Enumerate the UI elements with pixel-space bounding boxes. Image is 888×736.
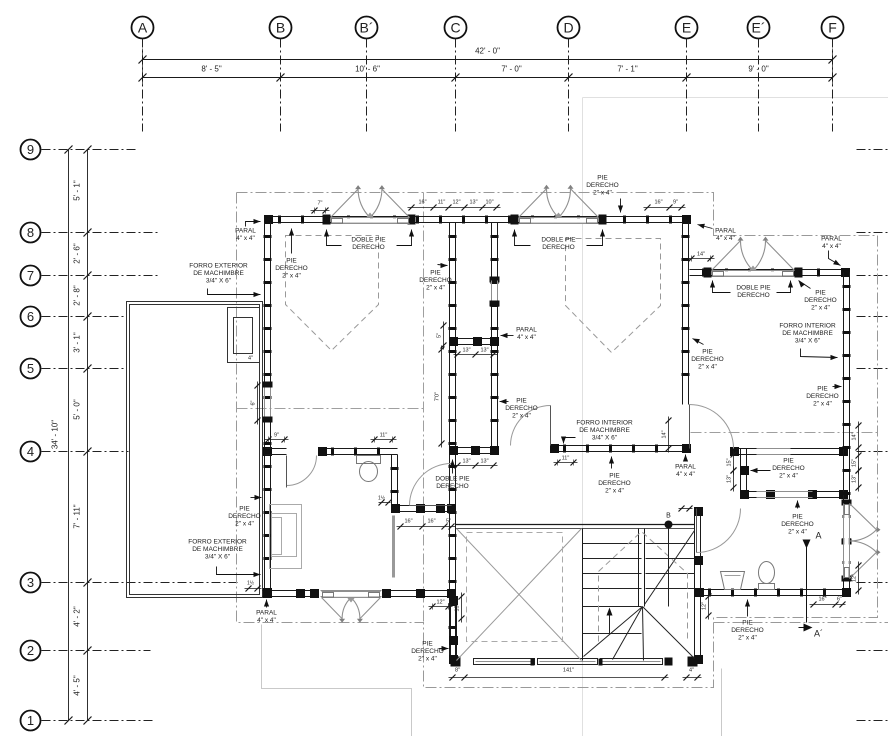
grid line 7 horizontal dash-dot xyxy=(42,275,159,277)
section marker A xyxy=(806,544,808,623)
grid line 8 horizontal dash-dot xyxy=(42,232,159,234)
E wall upper (x=682) xyxy=(682,223,684,405)
grid line 6 right edge dash-dot xyxy=(857,316,888,318)
window band right wing wall xyxy=(757,448,791,450)
corner post B top-left xyxy=(264,215,273,224)
grid bubble 8 xyxy=(21,223,41,243)
grid bubble F xyxy=(822,17,844,39)
grid line 1 right edge dash-dot xyxy=(857,720,888,722)
dims right wall right side xyxy=(858,422,860,452)
svg-text:2' - 8": 2' - 8" xyxy=(73,285,82,306)
svg-text:6: 6 xyxy=(27,309,34,324)
svg-text:3/4" X 6": 3/4" X 6" xyxy=(795,338,821,345)
small bathroom bottom wall xyxy=(392,505,456,507)
svg-text:DERECHO: DERECHO xyxy=(781,521,814,528)
svg-text:2" x 4": 2" x 4" xyxy=(593,190,612,197)
dim 5 closet vertical xyxy=(443,322,445,350)
left segment dimension line xyxy=(87,150,89,721)
grid line C vertical dash-dot xyxy=(455,39,457,132)
stair winder fan xyxy=(584,607,643,657)
ceiling dashed pentagon room D xyxy=(566,239,661,353)
svg-text:DERECHO: DERECHO xyxy=(804,297,837,304)
faint ground line xyxy=(262,625,412,736)
svg-text:2" x 4": 2" x 4" xyxy=(282,273,301,280)
grid line F vertical dash-dot xyxy=(832,39,834,132)
grid line 9 right edge dash-dot xyxy=(857,149,888,151)
svg-text:5": 5" xyxy=(446,519,451,525)
svg-text:DERECHO: DERECHO xyxy=(228,513,261,520)
terrace left wall xyxy=(450,597,452,661)
svg-text:DE MACHIMBRE: DE MACHIMBRE xyxy=(193,270,244,277)
stair X terrace gray diagonals xyxy=(457,529,582,661)
small bathroom right wall xyxy=(391,455,393,506)
carport / deck rectangle xyxy=(127,302,263,598)
svg-text:8' - 5": 8' - 5" xyxy=(201,65,222,74)
grid line A vertical dash-dot xyxy=(142,39,144,132)
sink right bathroom xyxy=(721,572,745,590)
svg-text:14": 14" xyxy=(662,430,668,438)
svg-text:4" x 4": 4" x 4" xyxy=(257,617,276,624)
svg-text:PIE: PIE xyxy=(783,458,794,465)
svg-text:1½: 1½ xyxy=(247,580,255,587)
svg-text:16": 16" xyxy=(427,519,435,525)
window left wall xyxy=(263,382,273,388)
dim 13 vertical bottom left wing xyxy=(461,593,463,623)
svg-text:DERECHO: DERECHO xyxy=(505,405,538,412)
double door swing bottom xyxy=(322,598,352,619)
dims 16,16,5 small bathroom xyxy=(397,526,456,528)
grid bubble 1 xyxy=(21,711,41,731)
dim 11 bathroom xyxy=(371,439,397,441)
grid line 4 right edge dash-dot xyxy=(857,451,888,453)
svg-text:FORRO EXTERIOR: FORRO EXTERIOR xyxy=(189,263,248,270)
svg-text:2" x 4": 2" x 4" xyxy=(418,656,437,663)
svg-text:11": 11" xyxy=(438,200,446,206)
E wall lower stub xyxy=(682,449,684,453)
grid bubble B xyxy=(270,17,292,39)
grid bubble B´ xyxy=(356,17,378,39)
dashed eave line right wing xyxy=(691,432,878,434)
svg-text:10": 10" xyxy=(485,200,493,206)
grid line 5 horizontal dash-dot xyxy=(42,368,127,370)
dashed eave line left wing xyxy=(237,408,424,410)
svg-text:12": 12" xyxy=(702,602,708,610)
faint sheet border top-right xyxy=(582,98,584,736)
window right wing top xyxy=(704,268,712,278)
door arc room D bottom xyxy=(511,406,551,446)
grid line E vertical dash-dot xyxy=(686,39,688,132)
tiny dim small bath xyxy=(379,502,391,504)
svg-text:PIE: PIE xyxy=(742,620,753,627)
svg-text:141": 141" xyxy=(563,668,574,674)
svg-text:4" x 4": 4" x 4" xyxy=(716,235,735,242)
dim 12 bottom left wing xyxy=(429,606,453,608)
svg-text:2" x 4": 2" x 4" xyxy=(811,305,830,312)
svg-text:2" x 4": 2" x 4" xyxy=(235,521,254,528)
svg-text:PIE: PIE xyxy=(430,270,441,277)
svg-text:11": 11" xyxy=(562,456,570,462)
dim 7 inch top wall xyxy=(311,210,330,212)
toilet right bathroom xyxy=(759,562,775,584)
svg-text:DERECHO: DERECHO xyxy=(731,627,764,634)
svg-text:DERECHO: DERECHO xyxy=(275,265,308,272)
svg-text:3/4" X 6": 3/4" X 6" xyxy=(206,278,232,285)
svg-text:PARAL: PARAL xyxy=(675,464,696,471)
grid bubble D xyxy=(558,17,580,39)
svg-text:13": 13" xyxy=(469,200,477,206)
svg-text:7": 7" xyxy=(317,201,322,207)
stair up arrow xyxy=(609,611,611,634)
svg-text:9": 9" xyxy=(274,433,279,439)
svg-text:4": 4" xyxy=(689,668,694,674)
dim 12 right wall lower xyxy=(858,562,860,595)
dims 13,13 closet xyxy=(454,354,498,356)
section marker A' xyxy=(804,624,813,632)
grid bubble E xyxy=(676,17,698,39)
grid bubble 5 xyxy=(21,359,41,379)
svg-text:3: 3 xyxy=(27,575,34,590)
svg-text:2" x 4": 2" x 4" xyxy=(738,635,757,642)
svg-text:E´: E´ xyxy=(752,20,766,36)
terrace bottom dim 8,141,4 xyxy=(449,677,669,679)
right wing wall y=448 xyxy=(731,448,847,450)
grid line 4 horizontal dash-dot xyxy=(42,451,129,453)
svg-text:16": 16" xyxy=(654,200,662,206)
svg-text:PIE: PIE xyxy=(286,258,297,265)
dims 15,13 right wing left xyxy=(733,451,735,475)
svg-text:5' - 1": 5' - 1" xyxy=(73,180,82,201)
svg-text:34' - 10": 34' - 10" xyxy=(51,420,60,449)
grid bubble 9 xyxy=(21,140,41,160)
svg-text:2" x 4": 2" x 4" xyxy=(813,401,832,408)
grid bubble 6 xyxy=(21,307,41,327)
dim 14 E wall vertical xyxy=(668,417,670,453)
svg-text:4" x 4": 4" x 4" xyxy=(822,243,841,250)
grid line 6 horizontal dash-dot xyxy=(42,316,127,318)
svg-text:3' - 1": 3' - 1" xyxy=(73,332,82,353)
window top wall 2 xyxy=(511,215,519,225)
stair diagonal upper right xyxy=(645,531,695,605)
svg-text:F: F xyxy=(828,20,837,36)
svg-text:B´: B´ xyxy=(360,20,374,36)
grid bubble 4 xyxy=(21,442,41,462)
svg-text:DERECHO: DERECHO xyxy=(352,244,385,251)
svg-text:12": 12" xyxy=(436,600,444,606)
svg-text:2" x 4": 2" x 4" xyxy=(788,529,807,536)
svg-text:2" x 4": 2" x 4" xyxy=(426,285,445,292)
svg-text:16": 16" xyxy=(418,200,426,206)
svg-text:PARAL: PARAL xyxy=(256,610,277,617)
svg-text:12": 12" xyxy=(452,200,460,206)
svg-text:DERECHO: DERECHO xyxy=(586,182,619,189)
dim 14 right wing top xyxy=(688,258,715,260)
svg-text:DERECHO: DERECHO xyxy=(542,244,575,251)
svg-text:DOBLE PIE: DOBLE PIE xyxy=(351,237,386,244)
door arc bathroom small xyxy=(287,456,317,486)
right wing wall y=491 xyxy=(741,491,847,493)
chimney box xyxy=(228,308,260,363)
svg-text:11": 11" xyxy=(380,433,388,439)
svg-text:DERECHO: DERECHO xyxy=(436,483,469,490)
svg-text:6": 6" xyxy=(837,597,842,603)
dims 16,9 top wall right xyxy=(644,207,686,209)
grid line E´ vertical dash-dot xyxy=(758,39,760,132)
grid line B vertical dash-dot xyxy=(280,39,282,132)
grid bubble E´ xyxy=(748,17,770,39)
svg-text:7' - 1": 7' - 1" xyxy=(617,65,638,74)
svg-text:DERECHO: DERECHO xyxy=(737,292,770,299)
svg-text:DOBLE PIE: DOBLE PIE xyxy=(736,285,771,292)
window corridor wall xyxy=(490,277,500,283)
grid line 5 right edge dash-dot xyxy=(857,368,888,370)
svg-text:4' - 5": 4' - 5" xyxy=(73,675,82,696)
svg-text:1: 1 xyxy=(27,713,34,728)
grid line 8 right edge dash-dot xyxy=(857,232,888,234)
svg-text:13": 13" xyxy=(480,348,488,354)
svg-text:2' - 6": 2' - 6" xyxy=(73,243,82,264)
svg-text:FORRO EXTERIOR: FORRO EXTERIOR xyxy=(188,539,247,546)
svg-text:2" x 4": 2" x 4" xyxy=(512,413,531,420)
svg-text:3/4" X 6": 3/4" X 6" xyxy=(592,435,618,442)
grid line 7 right edge dash-dot xyxy=(857,275,888,277)
tiny dim near B xyxy=(679,508,693,510)
grid line D vertical dash-dot xyxy=(568,39,570,132)
svg-text:4" x 4": 4" x 4" xyxy=(676,471,695,478)
svg-text:13": 13" xyxy=(462,348,470,354)
svg-text:12": 12" xyxy=(852,574,858,582)
svg-text:7: 7 xyxy=(27,268,34,283)
svg-text:7' - 11": 7' - 11" xyxy=(73,504,82,528)
svg-text:DOBLE PIE: DOBLE PIE xyxy=(435,476,470,483)
corridor bottom wall xyxy=(450,447,498,449)
svg-text:PARAL: PARAL xyxy=(235,228,256,235)
svg-text:PIE: PIE xyxy=(239,506,250,513)
svg-text:FORRO INTERIOR: FORRO INTERIOR xyxy=(576,420,633,427)
svg-text:PIE: PIE xyxy=(815,290,826,297)
room D bottom wall (y=445) xyxy=(551,445,690,447)
grid line 1 horizontal dash-dot xyxy=(42,720,153,722)
svg-text:14": 14" xyxy=(697,252,705,258)
door arc right wing entry xyxy=(690,405,734,449)
svg-text:A: A xyxy=(138,20,148,36)
svg-text:DE MACHIMBRE: DE MACHIMBRE xyxy=(192,546,243,553)
svg-text:DE MACHIMBRE: DE MACHIMBRE xyxy=(782,330,833,337)
post left wall row4 xyxy=(263,447,272,456)
svg-text:13": 13" xyxy=(455,603,461,611)
svg-text:B: B xyxy=(666,513,671,520)
svg-text:2: 2 xyxy=(27,643,34,658)
svg-text:13": 13" xyxy=(480,459,488,465)
svg-text:10' - 6": 10' - 6" xyxy=(355,65,380,74)
svg-text:DERECHO: DERECHO xyxy=(691,356,724,363)
dashed boundary extension right xyxy=(714,622,888,624)
svg-text:4" x 4": 4" x 4" xyxy=(236,235,255,242)
terrace right wall xyxy=(694,509,696,661)
svg-text:15": 15" xyxy=(852,459,858,467)
svg-text:DERECHO: DERECHO xyxy=(772,465,805,472)
gray partition line xyxy=(392,516,395,578)
dashed ridge line x=423 xyxy=(423,193,425,623)
stair flight divider xyxy=(582,529,584,661)
svg-text:2" x 4": 2" x 4" xyxy=(779,473,798,480)
svg-text:1½: 1½ xyxy=(378,495,386,502)
top segment dimension line xyxy=(143,77,833,79)
svg-text:13": 13" xyxy=(852,475,858,483)
bathroom bottom wall (y=589) xyxy=(696,589,850,591)
svg-text:DOBLE PIE: DOBLE PIE xyxy=(541,237,576,244)
svg-text:FORRO INTERIOR: FORRO INTERIOR xyxy=(779,323,836,330)
svg-text:4: 4 xyxy=(27,444,34,459)
top wall E-F right wing (y=269) xyxy=(690,269,847,271)
svg-text:8": 8" xyxy=(455,668,460,674)
svg-text:9": 9" xyxy=(673,200,678,206)
grid line 9 horizontal dash-dot xyxy=(42,149,139,151)
svg-text:7' - 0": 7' - 0" xyxy=(501,65,522,74)
dim 7'0 vertical room1 xyxy=(441,346,443,448)
svg-text:4' - 2": 4' - 2" xyxy=(73,606,82,627)
svg-text:15": 15" xyxy=(727,458,733,466)
overall dimension 42'-0" xyxy=(143,59,833,61)
dim 11 room D bottom xyxy=(554,462,578,464)
svg-text:PIE: PIE xyxy=(817,386,828,393)
right wall F (x=843) xyxy=(843,273,845,594)
svg-text:5' - 0": 5' - 0" xyxy=(73,399,82,420)
corner post E top xyxy=(682,215,691,224)
window top wall 1 xyxy=(323,215,331,225)
door arc bathroom right xyxy=(697,509,741,553)
tiny dim 1 bottom left xyxy=(245,588,262,590)
svg-text:D: D xyxy=(563,20,573,36)
svg-text:DERECHO: DERECHO xyxy=(411,648,444,655)
grid bubble 3 xyxy=(21,573,41,593)
stair stringer xyxy=(638,529,640,607)
section line B xyxy=(668,529,670,607)
svg-text:5: 5 xyxy=(27,361,34,376)
svg-text:PIE: PIE xyxy=(702,349,713,356)
svg-text:A: A xyxy=(815,531,821,541)
grid line 3 horizontal dash-dot xyxy=(42,582,241,584)
svg-text:E: E xyxy=(682,20,691,36)
windows right wall F xyxy=(842,500,852,506)
svg-text:PIE: PIE xyxy=(597,175,608,182)
right wing stub wall vertical xyxy=(740,449,742,499)
dim 9 bathroom xyxy=(265,439,289,441)
svg-text:PIE: PIE xyxy=(516,398,527,405)
grid bubble 7 xyxy=(21,266,41,286)
svg-text:14": 14" xyxy=(852,432,858,440)
svg-text:7'0": 7'0" xyxy=(435,392,441,401)
marker B xyxy=(665,521,673,529)
corner post F top xyxy=(841,268,850,277)
faint ground line right xyxy=(721,669,723,736)
dims 16,6 bathroom bottom xyxy=(810,604,846,606)
svg-text:13": 13" xyxy=(462,459,470,465)
svg-text:PIE: PIE xyxy=(609,473,620,480)
svg-text:B: B xyxy=(276,20,285,36)
bathroom top wall row4 (y=448) xyxy=(266,448,287,450)
dim 12 terrace right xyxy=(708,593,710,620)
grid line 3 right edge dash-dot xyxy=(857,582,888,584)
grid bubble A xyxy=(132,17,154,39)
dashed roof overhang boundary xyxy=(237,193,878,688)
terrace top edge xyxy=(456,524,695,526)
svg-text:DERECHO: DERECHO xyxy=(806,393,839,400)
stair dashed walking line xyxy=(599,532,688,642)
dim 6 left wall window xyxy=(257,382,259,425)
svg-text:C: C xyxy=(450,20,460,36)
sill bottom double door xyxy=(321,590,382,592)
grid line 2 right edge dash-dot xyxy=(857,650,888,652)
overall dimension 34'-10" xyxy=(68,150,70,721)
terrace bottom rail xyxy=(474,659,535,665)
svg-text:PARAL: PARAL xyxy=(821,236,842,243)
corridor left wall C (x=449) xyxy=(449,223,451,658)
stair treads right flight xyxy=(646,543,695,545)
corner post bottom-left xyxy=(263,588,272,597)
svg-text:2" x 4": 2" x 4" xyxy=(605,488,624,495)
svg-text:3/4" X 6": 3/4" X 6" xyxy=(205,554,231,561)
closet stub wall xyxy=(450,338,498,340)
top wall B-E (y=216) xyxy=(266,216,691,218)
svg-text:PIE: PIE xyxy=(422,641,433,648)
svg-text:16": 16" xyxy=(818,597,826,603)
svg-text:16": 16" xyxy=(404,519,412,525)
svg-text:5": 5" xyxy=(437,333,443,338)
door arc corridor bottom xyxy=(410,464,452,506)
svg-text:DE MACHIMBRE: DE MACHIMBRE xyxy=(579,427,630,434)
ceiling dashed pentagon room 1 xyxy=(286,236,379,351)
svg-text:DERECHO: DERECHO xyxy=(419,277,452,284)
svg-text:2" x 4": 2" x 4" xyxy=(698,364,717,371)
svg-text:PARAL: PARAL xyxy=(715,228,736,235)
svg-text:PARAL: PARAL xyxy=(516,327,537,334)
grid bubble C xyxy=(445,17,467,39)
svg-text:9' - 0": 9' - 0" xyxy=(748,65,769,74)
stair dashed inner rect xyxy=(467,533,563,642)
dims 16,11,12,13,10 top wall xyxy=(408,207,501,209)
corridor right wall (x=491) xyxy=(491,223,493,448)
grid line B´ vertical dash-dot xyxy=(366,39,368,132)
svg-text:A´: A´ xyxy=(814,629,823,639)
svg-text:PIE: PIE xyxy=(792,514,803,521)
svg-text:9: 9 xyxy=(27,142,34,157)
svg-text:6": 6" xyxy=(251,400,257,405)
svg-text:4" x 4": 4" x 4" xyxy=(517,334,536,341)
svg-text:8: 8 xyxy=(27,225,34,240)
grid line 2 horizontal dash-dot xyxy=(42,650,151,652)
left wall (x=264) xyxy=(264,223,266,591)
svg-text:13": 13" xyxy=(727,475,733,483)
svg-text:42' - 0": 42' - 0" xyxy=(475,47,500,56)
toilet small bathroom xyxy=(357,456,381,464)
bottom wall left wing (y=590) xyxy=(263,590,319,592)
fireplace left wall xyxy=(270,505,302,569)
stair treads left flight xyxy=(583,543,642,545)
svg-text:4": 4" xyxy=(248,356,253,362)
dims 13,13 corridor bottom xyxy=(454,465,498,467)
grid bubble 2 xyxy=(21,641,41,661)
svg-text:DERECHO: DERECHO xyxy=(598,480,631,487)
